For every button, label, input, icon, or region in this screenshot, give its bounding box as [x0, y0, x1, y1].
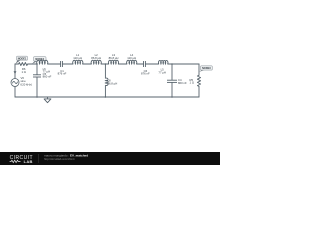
label C5 860nF — [43, 72, 52, 79]
inductor L5 — [158, 60, 167, 64]
wire L1 to L2 — [83, 63, 92, 65]
svg-text:86.8 µH: 86.8 µH — [109, 56, 119, 60]
capacitor C4 (shunt) — [167, 80, 177, 97]
wire C1 to L1 — [62, 63, 73, 65]
label L2 86.8uH — [91, 53, 101, 60]
svg-text:86.8 µH: 86.8 µH — [107, 81, 117, 85]
wire source upper lead — [14, 64, 16, 79]
junction C5 bottom — [36, 96, 38, 98]
label L4 110uH — [127, 53, 136, 60]
wire L8 to bottom — [104, 85, 106, 97]
label R5 1 Ohm — [190, 78, 194, 85]
wire L5 to right corner — [168, 63, 199, 65]
wire source lower lead — [14, 87, 16, 98]
footer bar — [0, 152, 220, 165]
wire junction down to C4 — [171, 64, 173, 80]
svg-text:http://circuitlab.com/c6m4: http://circuitlab.com/c6m4 — [44, 157, 75, 161]
wire R5 to bottom — [198, 87, 200, 97]
capacitor C5 (shunt) — [33, 75, 41, 97]
inductor L8 (shunt, vertical) — [105, 78, 108, 85]
label L6 77uH — [43, 67, 51, 73]
junction L8 bottom — [105, 96, 107, 98]
inductor L2 — [91, 60, 101, 64]
voltage source V6 — [11, 79, 19, 87]
wire R6 to node — [29, 63, 38, 65]
label L8 86.8uH — [107, 78, 117, 85]
capacitor C1 (series) — [61, 61, 63, 67]
node junction shunt C4 — [171, 63, 173, 65]
resistor R5 (vertical) — [197, 75, 200, 87]
svg-text:NODE3: NODE3 — [202, 67, 211, 70]
label C6 876nF — [141, 69, 150, 76]
label L3 86.8uH — [109, 53, 119, 60]
label L1 110uH — [73, 53, 82, 60]
wire junction down to L8 — [104, 64, 106, 78]
svg-text:NODE1: NODE1 — [18, 57, 27, 60]
svg-text:110 µH: 110 µH — [73, 56, 82, 60]
label L5 77uH — [158, 67, 166, 74]
label R6 1 Ohm — [21, 67, 25, 74]
bottom wire — [15, 96, 199, 98]
wire node down to C5 — [36, 64, 38, 75]
inductor L6 — [37, 60, 48, 64]
inductor L1 — [73, 60, 83, 64]
svg-text:860 nF: 860 nF — [43, 74, 52, 78]
svg-text:876 nF: 876 nF — [58, 72, 67, 76]
wire C6 to L5 — [145, 63, 158, 65]
svg-text:mauro.mongiardo : EV_matched: mauro.mongiardo : EV_matched — [44, 153, 88, 157]
capacitor C6 (series) — [144, 61, 146, 67]
node junction shunt L8 — [105, 63, 107, 65]
resistor R6 — [18, 63, 29, 66]
svg-text:1 Ω: 1 Ω — [190, 81, 194, 85]
wire L6 to C1 — [48, 63, 61, 65]
footer divider — [38, 154, 40, 163]
logo resistor zigzag + LAB — [10, 160, 21, 162]
label C1 876nF — [58, 69, 67, 76]
ground — [44, 97, 51, 103]
inductor L4 — [127, 60, 137, 64]
label C4 860nF — [178, 78, 187, 85]
wire L2 to L3 with junction — [101, 63, 109, 65]
node flag NODE3 — [199, 66, 212, 72]
svg-text:110 µH: 110 µH — [127, 56, 136, 60]
junction C4 bottom — [171, 96, 173, 98]
wire L3 to L4 — [118, 63, 127, 65]
wire L4 to C6 — [137, 63, 144, 65]
node junction at shunt C5 — [36, 63, 38, 65]
svg-text:1 Ω: 1 Ω — [21, 70, 25, 74]
label V6 sine — [21, 76, 32, 86]
svg-text:860 nF: 860 nF — [178, 81, 187, 85]
node flag NODE1 — [16, 56, 28, 63]
svg-text:77 µH: 77 µH — [158, 70, 166, 74]
inductor L3 — [108, 60, 118, 64]
svg-text:LAB: LAB — [24, 159, 33, 164]
polarity arrow on source lead — [14, 71, 17, 74]
node flag NODE2 — [32, 57, 46, 64]
wire top left from source to resistor — [15, 63, 18, 65]
svg-text:86.8 µH: 86.8 µH — [91, 56, 101, 60]
svg-text:876 nF: 876 nF — [141, 72, 150, 76]
svg-text:f(20 kHz): f(20 kHz) — [21, 82, 32, 86]
wire right corner down to R5 — [198, 64, 200, 75]
